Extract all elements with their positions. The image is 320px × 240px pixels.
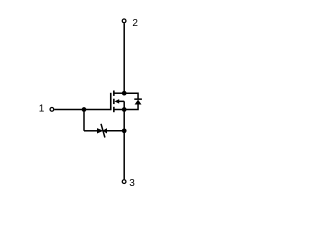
wire gate junction down: [83, 110, 85, 131]
wire body-to-source vertical: [123, 101, 125, 109]
transistor Q1 body arrow head: [115, 99, 120, 104]
node drain junction: [122, 91, 127, 96]
pin 3 terminal: [122, 180, 126, 184]
wire drain vertical (pin2 to drain node): [123, 23, 125, 93]
diode D1 triangle: [135, 100, 142, 105]
diode D1 cathode bar: [134, 98, 142, 100]
wire gate horizontal (pin1 to gate): [54, 109, 111, 111]
node zener junction: [122, 128, 127, 133]
wire zener left: [84, 130, 97, 132]
pin 1 terminal: [50, 108, 54, 112]
wire body diode top: [124, 93, 138, 98]
wire zener right: [107, 130, 124, 132]
transistor Q1 drain stub: [114, 92, 124, 94]
transistor Q1 drain channel tick: [113, 91, 115, 96]
transistor Q1 gate electrode bar: [110, 93, 112, 110]
transistor Q1 body stub: [119, 100, 125, 102]
node source junction: [122, 107, 127, 112]
wire source vertical (source node to pin3): [123, 110, 125, 180]
zener Z1 right triangle: [103, 128, 107, 133]
node gate junction: [82, 107, 87, 112]
svg-text:1: 1: [39, 104, 45, 115]
transistor Q1 body channel tick: [113, 99, 115, 104]
zener Z1 left triangle: [97, 128, 103, 133]
svg-text:3: 3: [129, 178, 135, 189]
pin 2 terminal: [122, 19, 126, 23]
transistor Q1 source channel tick: [113, 107, 115, 112]
transistor Q1 source stub: [114, 109, 124, 111]
svg-text:2: 2: [132, 18, 138, 29]
wire body diode bottom: [124, 104, 138, 109]
zener Z1 slanted cathode bar: [101, 124, 105, 138]
